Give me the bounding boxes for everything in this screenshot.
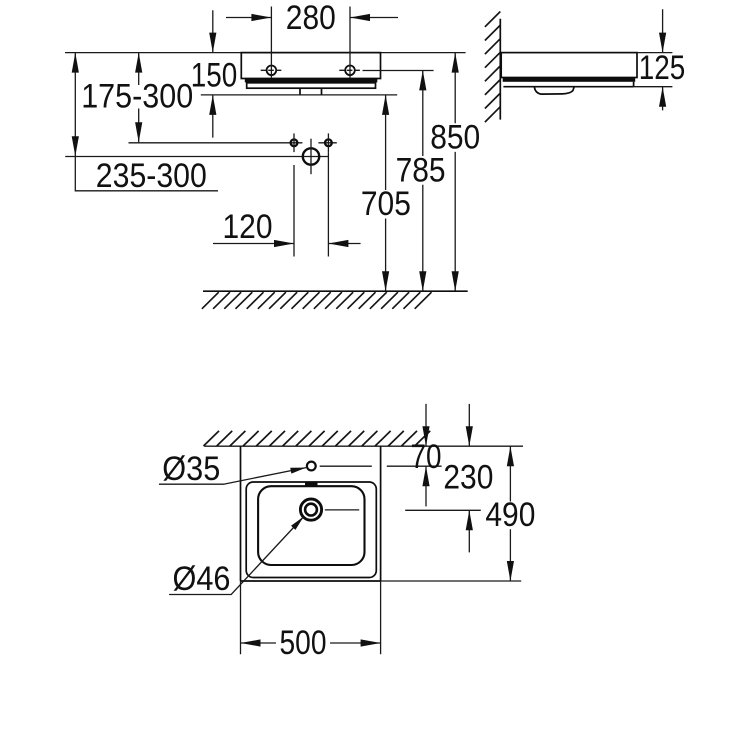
faucet hole right (front) — [339, 66, 360, 76]
wall line (side view) — [499, 19, 501, 120]
wall hatching (plan) — [204, 431, 431, 446]
dimension 235-300 with bracket — [72, 53, 218, 195]
extension line top (125) — [637, 52, 672, 54]
basin outer rect (plan) — [241, 446, 381, 581]
basin bowl rounded rect (plan) — [258, 486, 364, 565]
drain inner circle (plan) — [305, 504, 317, 516]
dimension 120 — [213, 208, 361, 247]
overflow mark — [305, 482, 318, 487]
basin shelf (side) — [503, 82, 633, 87]
svg-text:490: 490 — [485, 496, 535, 534]
dimension 280 — [226, 0, 398, 37]
basin lower shelf (front) — [247, 83, 376, 88]
wall top line — [65, 52, 466, 54]
label O35 with leader — [159, 450, 307, 488]
dimension 150 — [191, 10, 238, 137]
dimension 850 — [430, 53, 480, 292]
svg-text:500: 500 — [280, 624, 327, 662]
dimension 785 — [396, 70, 446, 291]
svg-text:850: 850 — [430, 118, 480, 156]
svg-text:280: 280 — [286, 0, 336, 37]
extension lines up from faucet holes — [271, 7, 350, 78]
dimension 705 — [361, 95, 411, 291]
svg-text:120: 120 — [223, 208, 273, 246]
svg-text:150: 150 — [191, 56, 238, 94]
dimension 490 — [485, 446, 535, 581]
svg-text:Ø46: Ø46 — [173, 560, 231, 598]
svg-text:70: 70 — [411, 438, 442, 476]
svg-text:705: 705 — [361, 185, 411, 223]
supply-holes horizontal line (line A) — [129, 142, 337, 144]
faucet hole center line (plan) — [320, 465, 442, 467]
svg-text:125: 125 — [639, 49, 686, 87]
dimension 125 — [639, 9, 686, 110]
supply hole right (small circle) — [325, 133, 332, 152]
svg-text:785: 785 — [396, 151, 446, 189]
bottom edge extension right (490 dim) — [381, 580, 522, 582]
floor line — [203, 290, 468, 292]
extension lines down to 120 dimension — [294, 152, 328, 256]
svg-text:Ø35: Ø35 — [162, 450, 220, 488]
basin rim thick band (side) — [503, 77, 636, 82]
dimension 70 — [411, 404, 442, 507]
label O46 with leader — [169, 514, 306, 598]
basin rim rounded rect (plan) — [246, 482, 376, 578]
svg-text:230: 230 — [443, 459, 493, 497]
supply hole left (small circle) — [291, 133, 298, 152]
reference line under basin (705 level) — [201, 94, 397, 96]
drain outer circle (plan) — [300, 499, 321, 520]
reference line from right faucet hole (785 level) — [363, 70, 434, 72]
wall hatching (side view) — [485, 12, 500, 123]
drain tab (front) — [300, 88, 322, 95]
dimension 175-300 — [81, 53, 193, 143]
extension line bottom (125) — [634, 86, 673, 88]
outer rect side extensions down to 500 dim — [241, 581, 381, 654]
svg-text:235-300: 235-300 — [96, 157, 207, 195]
faucet hole left (front) — [261, 66, 282, 76]
drain circle (front, large) — [303, 139, 319, 175]
wall line (plan) — [204, 445, 523, 447]
drain center line (plan) — [325, 509, 481, 511]
drain-center horizontal line (line B) — [65, 156, 328, 158]
faucet hole circle (plan) — [307, 462, 316, 471]
floor hatching — [202, 292, 432, 309]
basin rim thick band (front) — [245, 78, 377, 83]
dimension 230 — [443, 404, 493, 553]
svg-text:175-300: 175-300 — [81, 78, 193, 116]
drain cover bump (side) — [534, 87, 574, 94]
dimension 500 — [241, 624, 381, 662]
basin body (side) — [501, 53, 637, 78]
basin body (front) — [241, 53, 380, 79]
